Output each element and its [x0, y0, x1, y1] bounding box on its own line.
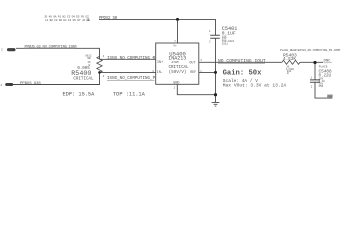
svg-text:EDP: 15.5A: EDP: 15.5A: [63, 92, 96, 98]
svg-text:2011: 2011: [222, 42, 229, 45]
svg-text:212: 212: [8, 49, 13, 52]
svg-text:PPBUS_G3S: PPBUS_G3S: [20, 82, 41, 86]
svg-text:GND: GND: [328, 95, 333, 98]
svg-text:CRITICAL: CRITICAL: [73, 78, 94, 82]
svg-text:PLACE: PLACE: [319, 66, 328, 69]
svg-text:OUT: OUT: [189, 62, 195, 66]
svg-text:4: 4: [103, 55, 105, 58]
svg-text:1: 1: [209, 30, 211, 33]
svg-text:X5R: X5R: [319, 85, 324, 88]
svg-text:1: 1: [200, 59, 202, 62]
svg-text:PPDV2_S0: PPDV2_S0: [99, 17, 118, 21]
svg-text:AYWM: AYWM: [172, 61, 179, 64]
svg-text:2: 2: [174, 86, 176, 89]
svg-text:L4 B2 C8 D6 E1 F3 G5 H7 J2 K4: L4 B2 C8 D6 E1 F3 G5 H7 J2 K4: [45, 19, 90, 22]
svg-text:IN-: IN-: [157, 71, 163, 75]
svg-text:R5400: R5400: [71, 70, 91, 78]
svg-text:5: 5: [200, 70, 202, 73]
svg-text:2: 2: [209, 41, 211, 44]
svg-text:1: 1: [311, 77, 313, 80]
svg-text:2: 2: [1, 84, 3, 87]
svg-text:IN+: IN+: [157, 61, 163, 65]
svg-text:TDP :11.1A: TDP :11.1A: [113, 92, 146, 98]
svg-text:1: 1: [87, 17, 90, 23]
svg-text:V+: V+: [173, 44, 177, 47]
svg-text:7: 7: [174, 40, 176, 43]
svg-text:Max VOut: 3.3V at 13.2A: Max VOut: 3.3V at 13.2A: [223, 83, 287, 89]
svg-text:PPBUS_G3_NO_COMPUTING_ISNS: PPBUS_G3_NO_COMPUTING_ISNS: [25, 46, 77, 50]
svg-text:2: 2: [311, 86, 313, 89]
svg-text:3: 3: [103, 75, 105, 78]
svg-text:4.53K: 4.53K: [283, 57, 296, 62]
svg-text:NB: NB: [88, 57, 92, 60]
svg-text:REF: REF: [190, 71, 196, 75]
svg-text:GND: GND: [173, 81, 179, 85]
svg-text:PLACE_NEAR=E6501_NO-COMPUTING_: PLACE_NEAR=E6501_NO-COMPUTING_MI-COMP: [280, 49, 341, 52]
svg-text:ISNS_NO_COMPUTING_R: ISNS_NO_COMPUTING_R: [107, 57, 156, 61]
svg-text:CRITICAL: CRITICAL: [169, 66, 190, 70]
svg-text:(50V/V): (50V/V): [169, 70, 187, 75]
svg-text:2: 2: [1, 49, 3, 52]
svg-text:Gain: 50x: Gain: 50x: [223, 70, 263, 78]
